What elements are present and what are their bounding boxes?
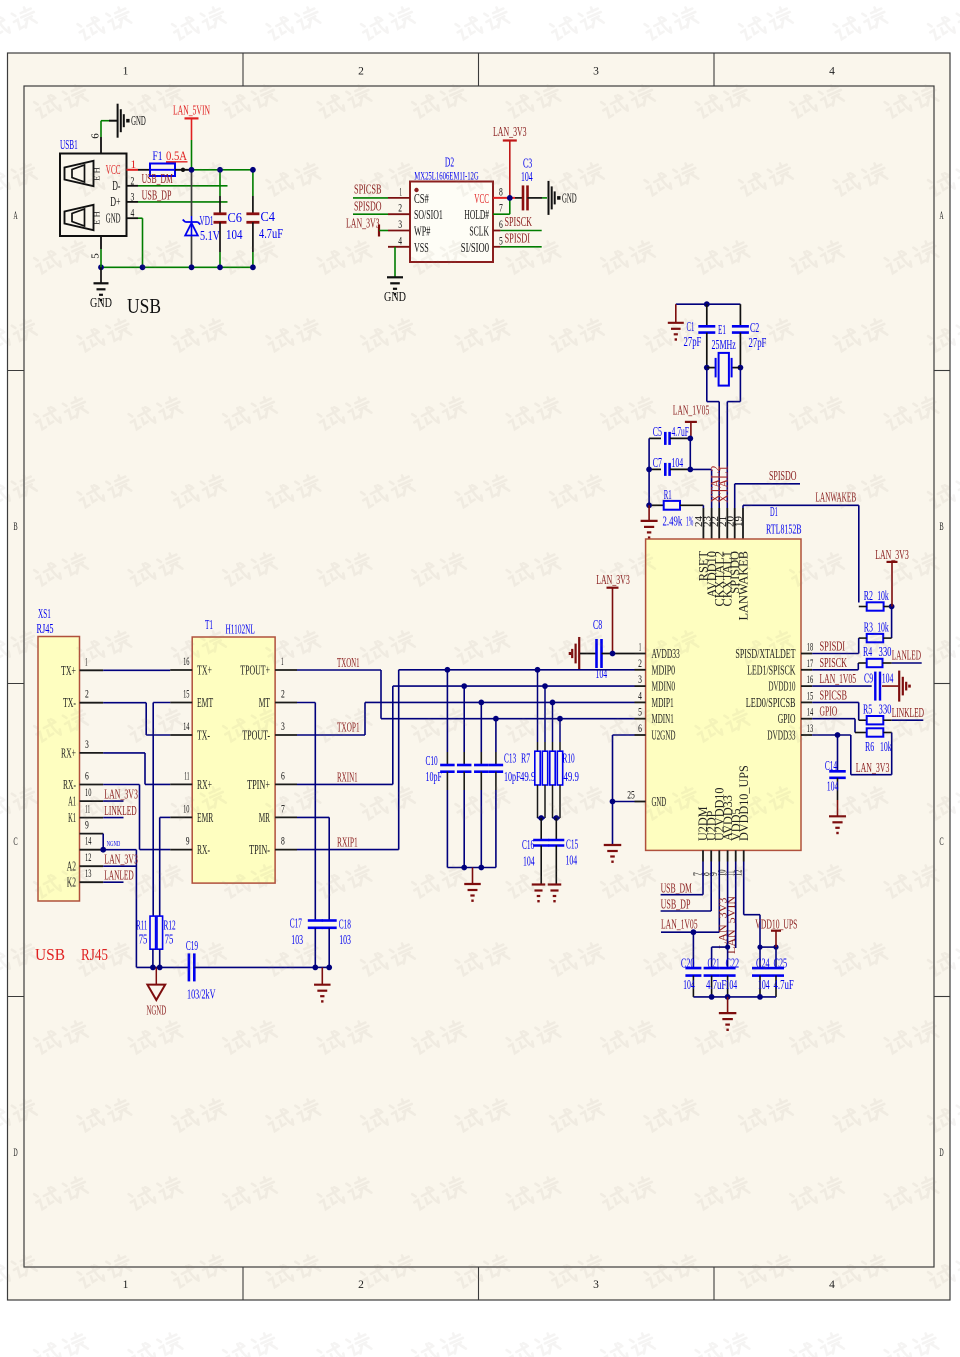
svg-text:A1: A1	[68, 794, 76, 809]
svg-text:3: 3	[593, 1279, 599, 1291]
svg-text:4: 4	[829, 66, 835, 78]
svg-text:10k: 10k	[880, 739, 892, 754]
svg-text:103: 103	[339, 932, 351, 947]
svg-text:E1: E1	[718, 322, 726, 337]
svg-text:104: 104	[683, 977, 695, 992]
svg-text:R12: R12	[164, 918, 176, 933]
svg-text:11: 11	[184, 770, 189, 782]
svg-text:14: 14	[183, 721, 190, 733]
svg-text:NGND: NGND	[147, 1003, 167, 1018]
svg-text:C16: C16	[522, 837, 534, 852]
svg-text:RX-: RX-	[197, 842, 210, 857]
svg-text:2: 2	[85, 689, 89, 701]
svg-text:3: 3	[593, 66, 599, 78]
svg-text:LANLED: LANLED	[104, 868, 133, 883]
svg-text:SCLK: SCLK	[469, 224, 489, 239]
svg-text:MDIN0: MDIN0	[652, 679, 676, 694]
svg-text:TPOUT+: TPOUT+	[240, 663, 270, 678]
svg-text:25MHz: 25MHz	[712, 337, 736, 352]
svg-text:D2: D2	[445, 155, 454, 170]
svg-text:103/2kV: 103/2kV	[187, 987, 216, 1002]
svg-text:C5: C5	[653, 424, 662, 439]
svg-text:10k: 10k	[877, 588, 889, 603]
svg-text:C9: C9	[864, 670, 873, 685]
svg-text:8: 8	[281, 836, 285, 848]
svg-text:104: 104	[882, 670, 894, 685]
svg-text:1: 1	[123, 66, 129, 78]
svg-text:USB1: USB1	[60, 137, 78, 152]
svg-text:TX-: TX-	[197, 728, 210, 743]
svg-text:C15: C15	[566, 837, 578, 852]
svg-text:9: 9	[85, 820, 89, 832]
svg-text:TPIN-: TPIN-	[249, 842, 270, 857]
svg-text:USB_DM: USB_DM	[142, 171, 173, 186]
svg-text:5.1V: 5.1V	[200, 228, 220, 243]
svg-text:104: 104	[672, 455, 684, 470]
svg-text:16: 16	[807, 674, 814, 686]
svg-text:D: D	[13, 1147, 17, 1159]
svg-text:GND: GND	[106, 211, 121, 226]
svg-text:104: 104	[827, 779, 839, 794]
svg-text:2: 2	[638, 658, 642, 670]
svg-text:75: 75	[165, 932, 174, 947]
svg-text:10: 10	[85, 787, 92, 799]
svg-text:MT: MT	[259, 695, 270, 710]
svg-text:104: 104	[523, 854, 535, 869]
svg-text:1: 1	[123, 1279, 129, 1291]
svg-text:TXON1: TXON1	[337, 655, 360, 670]
svg-text:C10: C10	[426, 753, 438, 768]
svg-text:104: 104	[726, 977, 738, 992]
svg-text:F1: F1	[153, 148, 163, 163]
svg-text:LED1/SPISCK: LED1/SPISCK	[747, 662, 796, 677]
svg-text:D: D	[939, 1147, 943, 1159]
svg-text:C: C	[13, 836, 17, 848]
svg-text:75: 75	[139, 932, 148, 947]
svg-text:330: 330	[879, 702, 892, 717]
svg-text:10pF: 10pF	[504, 769, 521, 784]
svg-text:RJ45: RJ45	[37, 621, 54, 636]
svg-text:5: 5	[90, 253, 102, 259]
svg-text:RXIN1: RXIN1	[337, 770, 358, 785]
svg-text:9: 9	[186, 836, 190, 848]
svg-text:TX+: TX+	[61, 663, 76, 678]
svg-text:14: 14	[85, 836, 92, 848]
svg-text:TX-: TX-	[63, 695, 76, 710]
svg-text:RXIP1: RXIP1	[337, 835, 358, 850]
svg-text:LAN_5VIN: LAN_5VIN	[173, 103, 210, 118]
svg-text:15: 15	[807, 690, 814, 702]
svg-text:WP#: WP#	[414, 224, 431, 239]
svg-text:D+: D+	[110, 194, 120, 209]
svg-text:NGND: NGND	[107, 839, 121, 848]
svg-text:2: 2	[398, 203, 402, 215]
svg-text:10pF: 10pF	[426, 769, 443, 784]
svg-text:15: 15	[183, 689, 190, 701]
svg-text:LAN_1V05: LAN_1V05	[820, 671, 857, 686]
svg-text:7: 7	[499, 203, 503, 215]
svg-text:27pF: 27pF	[684, 334, 702, 349]
svg-text:6: 6	[281, 770, 285, 782]
svg-text:VCC: VCC	[474, 191, 489, 206]
svg-text:4.7uF: 4.7uF	[706, 977, 726, 992]
svg-text:C: C	[939, 836, 943, 848]
svg-text:MDIP1: MDIP1	[652, 695, 674, 710]
svg-text:6: 6	[499, 219, 503, 231]
svg-text:D1: D1	[770, 504, 778, 519]
svg-text:R7: R7	[521, 751, 530, 766]
svg-text:1: 1	[639, 642, 642, 654]
svg-text:104: 104	[758, 977, 770, 992]
svg-text:RX+: RX+	[197, 777, 212, 792]
svg-text:17: 17	[807, 658, 814, 670]
svg-text:SPISDI: SPISDI	[820, 639, 846, 654]
svg-text:T1: T1	[205, 617, 213, 632]
svg-text:R2: R2	[864, 588, 873, 603]
svg-text:0.5A: 0.5A	[166, 148, 187, 163]
svg-text:SO/SIO1: SO/SIO1	[414, 207, 443, 222]
svg-text:14: 14	[807, 707, 814, 719]
svg-text:B: B	[13, 521, 17, 533]
svg-text:C19: C19	[186, 938, 198, 953]
svg-text:GPIO: GPIO	[778, 711, 796, 726]
svg-text:LAN_3V3: LAN_3V3	[493, 124, 527, 139]
svg-text:LAN_1V05: LAN_1V05	[673, 403, 710, 418]
svg-text:RX-: RX-	[63, 777, 76, 792]
svg-text:SPISCK: SPISCK	[505, 214, 533, 229]
svg-text:C22: C22	[726, 955, 740, 970]
svg-text:2: 2	[281, 689, 285, 701]
svg-text:USB_DM: USB_DM	[661, 881, 692, 896]
svg-text:12: 12	[85, 852, 92, 864]
svg-text:LED0/SPICSB: LED0/SPICSB	[746, 695, 796, 710]
svg-text:4: 4	[638, 690, 642, 702]
svg-text:4: 4	[398, 235, 402, 247]
svg-text:C6: C6	[228, 210, 243, 225]
svg-text:USB_DP: USB_DP	[142, 187, 172, 202]
svg-text:B: B	[939, 521, 943, 533]
svg-text:6: 6	[85, 771, 89, 783]
svg-text:SPISDO: SPISDO	[354, 199, 382, 214]
svg-text:104: 104	[521, 169, 533, 184]
svg-text:R6: R6	[865, 739, 874, 754]
svg-text:8: 8	[499, 186, 503, 198]
svg-text:H1102NL: H1102NL	[226, 622, 255, 637]
svg-text:SI/SIO0: SI/SIO0	[461, 240, 489, 255]
svg-text:4.7uF: 4.7uF	[774, 977, 794, 992]
svg-text:18: 18	[807, 642, 814, 654]
svg-text:49.9: 49.9	[564, 769, 580, 784]
svg-text:RX+: RX+	[61, 745, 76, 760]
svg-text:R10: R10	[563, 751, 575, 766]
svg-text:C8: C8	[593, 617, 602, 632]
svg-text:LAN_3V3: LAN_3V3	[856, 760, 890, 775]
svg-text:104: 104	[566, 853, 578, 868]
svg-text:DVDD10: DVDD10	[769, 679, 796, 694]
svg-text:VD1: VD1	[200, 213, 214, 228]
svg-text:K1: K1	[68, 810, 76, 825]
svg-text:SPISDI: SPISDI	[505, 230, 531, 245]
svg-text:C14: C14	[825, 758, 837, 773]
svg-text:C7: C7	[653, 455, 662, 470]
svg-text:LAN_3V3: LAN_3V3	[346, 216, 380, 231]
svg-text:4.7uF: 4.7uF	[672, 424, 690, 439]
svg-text:HOLD#: HOLD#	[464, 207, 489, 222]
svg-text:3: 3	[638, 674, 642, 686]
svg-text:LAN_3V3: LAN_3V3	[596, 572, 630, 587]
svg-text:2: 2	[358, 66, 364, 78]
svg-text:1%: 1%	[686, 514, 693, 529]
svg-text:R11: R11	[136, 918, 147, 933]
svg-text:4: 4	[829, 1279, 835, 1291]
svg-text:C21: C21	[708, 955, 720, 970]
svg-text:25: 25	[627, 790, 635, 802]
svg-text:XTAL1: XTAL1	[716, 465, 730, 503]
svg-text:19: 19	[733, 516, 745, 528]
svg-text:C18: C18	[339, 917, 351, 932]
svg-text:GND: GND	[384, 289, 406, 304]
svg-text:CS#: CS#	[414, 191, 429, 206]
svg-text:C4: C4	[261, 209, 276, 224]
svg-text:USB: USB	[35, 945, 65, 964]
svg-text:USB_DP: USB_DP	[661, 897, 691, 912]
svg-text:R3: R3	[864, 620, 873, 635]
svg-text:LINKLED: LINKLED	[892, 705, 924, 720]
svg-text:3: 3	[398, 219, 402, 231]
svg-text:1: 1	[399, 186, 402, 198]
svg-text:LAN_1V05: LAN_1V05	[661, 916, 698, 931]
svg-text:SPISDO: SPISDO	[769, 468, 797, 483]
svg-text:103: 103	[291, 932, 303, 947]
svg-text:LANLED: LANLED	[892, 648, 921, 663]
svg-text:104: 104	[596, 666, 608, 681]
svg-text:A: A	[13, 210, 18, 222]
svg-text:R5: R5	[863, 702, 872, 717]
svg-text:EMT: EMT	[197, 695, 213, 710]
svg-text:MDIP0: MDIP0	[652, 662, 676, 677]
svg-text:SPICSB: SPICSB	[820, 687, 848, 702]
svg-text:XS1: XS1	[38, 606, 51, 621]
svg-text:USB: USB	[127, 294, 161, 318]
svg-text:E H: E H	[92, 211, 102, 224]
svg-text:TX+: TX+	[197, 663, 212, 678]
svg-text:U2GND: U2GND	[652, 728, 676, 743]
svg-text:VDD10_UPS: VDD10_UPS	[755, 916, 797, 931]
svg-text:A: A	[939, 210, 944, 222]
svg-text:5: 5	[499, 235, 503, 247]
svg-text:LAN_3V3: LAN_3V3	[875, 547, 909, 562]
svg-text:3: 3	[85, 739, 89, 751]
svg-text:2.49k: 2.49k	[663, 514, 683, 529]
svg-text:LAN_3V3: LAN_3V3	[104, 852, 138, 867]
svg-text:49.9: 49.9	[520, 769, 536, 784]
svg-text:RTL8152B: RTL8152B	[766, 522, 802, 537]
svg-text:GND: GND	[562, 190, 577, 205]
svg-text:104: 104	[226, 227, 243, 242]
svg-text:C17: C17	[290, 916, 302, 931]
svg-text:3: 3	[281, 721, 285, 733]
svg-text:6: 6	[90, 133, 102, 139]
svg-text:C13: C13	[504, 751, 516, 766]
svg-text:TPIN+: TPIN+	[247, 777, 270, 792]
svg-text:GND: GND	[90, 295, 112, 310]
svg-text:4.7uF: 4.7uF	[259, 226, 283, 241]
